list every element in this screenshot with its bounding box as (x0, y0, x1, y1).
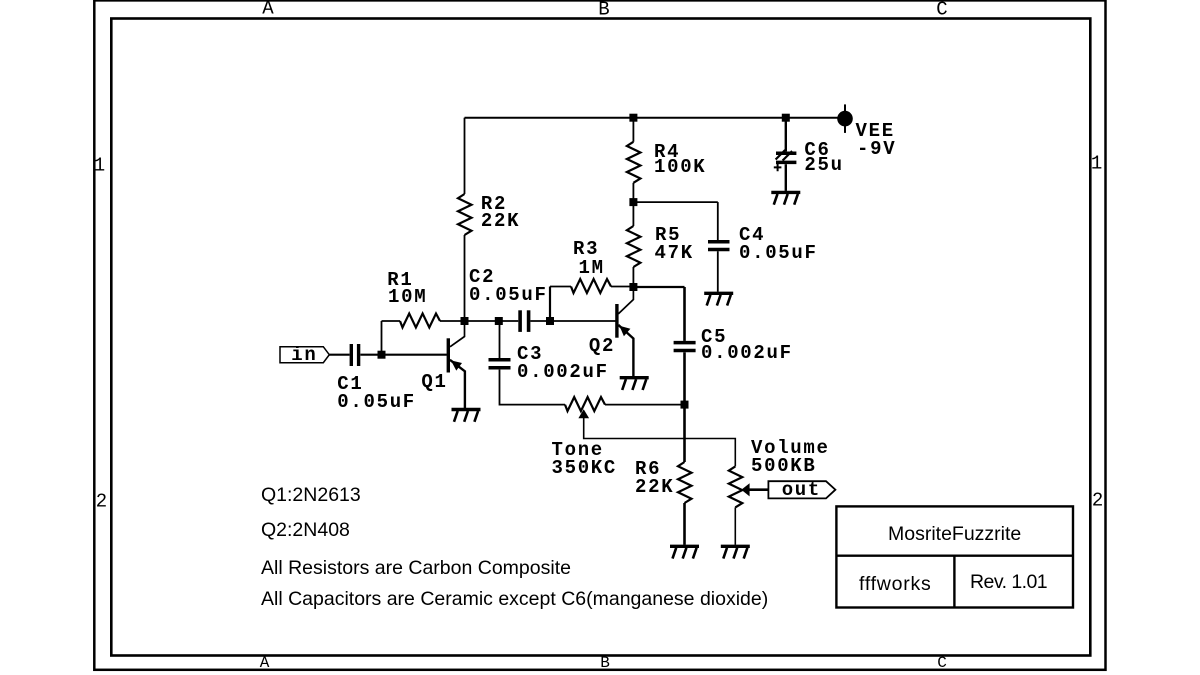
zone letter A top (262, 0, 273, 19)
net label VEE (856, 122, 895, 141)
label text out (782, 481, 821, 500)
zone number 2 right (1092, 492, 1103, 511)
wire R1 to node Q1 collector (440, 320, 518, 322)
transistor Q1 emitter arrow (451, 360, 462, 370)
label Q1 (421, 373, 447, 392)
wire R3 lead right (611, 286, 633, 288)
ground below Q2 (620, 378, 649, 390)
node junction at 633.4,287 (629, 283, 637, 291)
note resistors (261, 559, 571, 579)
value R4 100K (654, 158, 706, 177)
note Q2 type (261, 521, 350, 541)
node junction at 464.5,321 (461, 317, 469, 325)
transistor Q2 emitter arrow (619, 326, 630, 337)
capacitor C4 (708, 242, 730, 250)
potentiometer Volume wiper arrow (741, 483, 749, 496)
potentiometer Tone wiper arrow (578, 409, 589, 418)
capacitor C6 electrolytic 25u (776, 150, 797, 162)
wire R4 top lead (632, 118, 634, 142)
capacitor C4 top lead (717, 202, 719, 240)
zone letter C top (936, 0, 947, 19)
value C4 0.05uF (739, 244, 818, 263)
label C2 (469, 268, 495, 287)
label C6 (804, 141, 830, 160)
label C3 (517, 345, 543, 364)
wire R6 bottom lead (683, 503, 686, 545)
node junction at 381.5,354.7 (378, 351, 386, 359)
wire node R4R5 to C4 (633, 201, 717, 203)
wire C1 to Q1 base (360, 354, 447, 356)
value R6 22K (635, 478, 674, 497)
ground below R6 (670, 546, 699, 558)
wire R1 lead left (382, 320, 401, 322)
resistor R5 (627, 226, 641, 267)
wire VEE top rail (465, 117, 846, 119)
resistor R3 (571, 279, 611, 293)
potentiometer Volume body (729, 466, 743, 507)
label Volume pot (751, 439, 830, 458)
zone letter B bottom (600, 655, 610, 671)
wire R6 top lead (683, 405, 686, 462)
wire C2 to Q2 base (530, 320, 615, 322)
value C3 0.002uF (517, 363, 609, 382)
value C2 0.05uF (469, 286, 548, 305)
potentiometer Tone body (565, 397, 605, 411)
wire R3 riser (549, 287, 551, 322)
transistor Q1 collector (450, 321, 465, 347)
plus polarity mark C6 (774, 164, 782, 172)
capacitor C4 bottom lead (717, 251, 719, 292)
node junction at 785.8,117.7 (782, 114, 790, 122)
wire in to C1 (329, 354, 349, 356)
value Tone 350KC (552, 459, 618, 478)
resistor R1 (400, 314, 440, 328)
node junction at 633.4,202.1 (629, 198, 637, 206)
wire R3 lead left (550, 286, 571, 288)
input flag in (280, 347, 329, 363)
wire R2 branch top (464, 118, 466, 194)
node junction at 498.8,321 (495, 317, 503, 325)
wire R5 bottom lead (632, 267, 634, 287)
value R2 22K (481, 212, 520, 231)
capacitor C6 top lead (785, 118, 787, 152)
title text MosriteFuzzrite (888, 525, 1021, 545)
value C6 25u (804, 156, 843, 175)
value Volume 500KB (751, 457, 817, 476)
capacitor C2 (520, 310, 529, 332)
node junction at 633.4,117.7 (629, 114, 637, 122)
zone letter A bottom (260, 655, 270, 671)
node junction at 684.5,404.6 (681, 401, 689, 409)
ground below C6 (771, 192, 800, 204)
label C1 (337, 375, 363, 394)
value R3 1M (579, 259, 605, 278)
wire C3 riser (499, 321, 501, 358)
capacitor C6 bottom lead (785, 164, 787, 191)
transistor Q2 base bar (615, 304, 618, 338)
note Q1 type (261, 486, 361, 506)
ground below Q1 (452, 410, 481, 422)
zone letter B top (598, 0, 609, 19)
output flag out (768, 481, 835, 498)
label R6 (635, 460, 661, 479)
ground below Volume (721, 546, 750, 558)
note capacitors (261, 590, 768, 610)
inner border frame (111, 19, 1090, 656)
zone number 1 left (94, 156, 105, 175)
wire Tone right to node (605, 404, 685, 406)
wire R1 left vertical (381, 321, 383, 355)
transistor Q2 collector (618, 287, 633, 314)
wire Tone wiper (584, 417, 736, 466)
wire Volume wiper to out (749, 488, 768, 491)
value VEE -9V (857, 140, 896, 159)
node junction at 550,321 (546, 317, 554, 325)
wire Q2 collector node to C5 (633, 286, 684, 288)
capacitor C5 (674, 343, 696, 351)
label R5 (655, 226, 681, 245)
title text Rev. 1.01 (970, 573, 1047, 593)
resistor R2 (458, 194, 472, 235)
resistor R4 (627, 142, 641, 183)
wire R2 bottom to node (464, 235, 466, 321)
transistor Q2 emitter (618, 325, 633, 376)
capacitor C3 (489, 360, 511, 368)
zone number 1 right (1091, 155, 1102, 174)
transistor Q1 base bar (447, 338, 450, 372)
zone number 2 left (96, 492, 107, 511)
wire R4 bottom lead (632, 183, 634, 202)
label Q2 (589, 337, 615, 356)
wire C3 down to tone line (500, 370, 566, 405)
label text in (291, 346, 317, 365)
label R1 (387, 271, 413, 290)
label R4 (654, 143, 680, 162)
value R1 10M (388, 288, 427, 307)
value C1 0.05uF (337, 393, 416, 412)
label C5 (701, 328, 727, 347)
zone letter C bottom (937, 655, 947, 671)
wire C5 top lead (683, 287, 686, 341)
value R5 47K (655, 244, 694, 263)
label R2 (481, 195, 507, 214)
label C4 (739, 226, 765, 245)
resistor R6 (678, 462, 692, 503)
label R3 (573, 240, 599, 259)
title block frame (836, 506, 1073, 607)
wire Volume bottom lead (734, 507, 736, 544)
ground below C4 (704, 293, 733, 305)
power VEE stub (844, 104, 846, 132)
value C5 0.002uF (701, 344, 793, 363)
title text fffworks (859, 575, 931, 595)
wire C5 bottom lead (683, 352, 686, 404)
label Tone pot (552, 441, 604, 460)
capacitor C1 (351, 344, 358, 366)
power VEE terminal dot (837, 111, 853, 127)
wire R5 top lead (632, 202, 634, 226)
transistor Q1 emitter (450, 360, 465, 408)
